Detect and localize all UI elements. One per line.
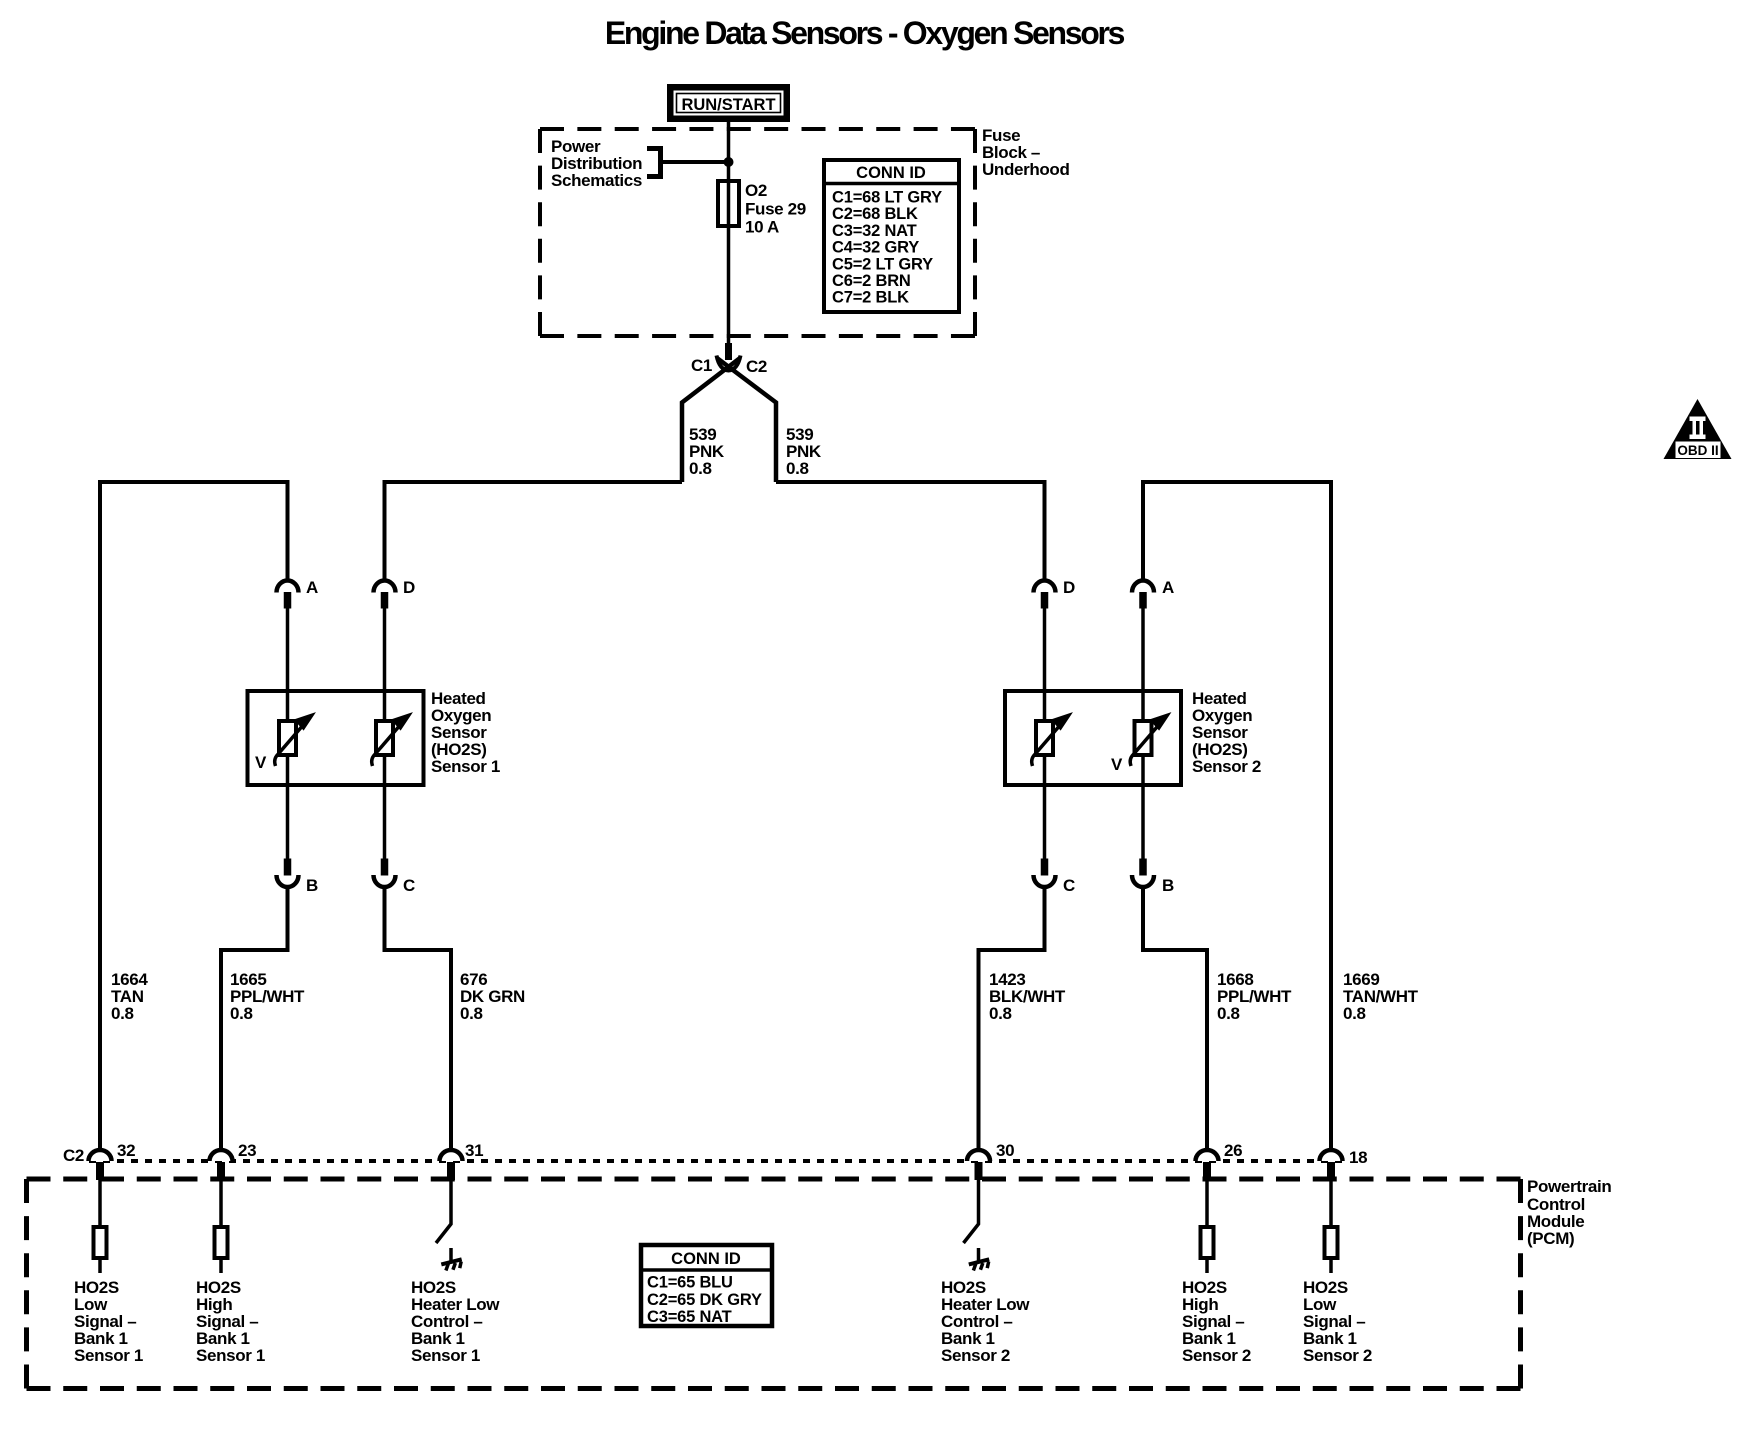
- svg-text:Sensor 2: Sensor 2: [1182, 1346, 1251, 1365]
- svg-text:Sensor 2: Sensor 2: [941, 1346, 1010, 1365]
- svg-text:0.8: 0.8: [230, 1004, 253, 1023]
- svg-text:30: 30: [996, 1141, 1014, 1160]
- svg-text:C3=65 NAT: C3=65 NAT: [647, 1308, 732, 1326]
- svg-text:Sensor 1: Sensor 1: [74, 1346, 143, 1365]
- svg-text:C1=65 BLU: C1=65 BLU: [647, 1274, 733, 1292]
- svg-text:Sensor 2: Sensor 2: [1303, 1346, 1372, 1365]
- svg-text:Sensor 2: Sensor 2: [1192, 757, 1261, 776]
- svg-text:Underhood: Underhood: [982, 160, 1070, 179]
- svg-text:A: A: [306, 578, 318, 597]
- svg-text:0.8: 0.8: [111, 1004, 134, 1023]
- svg-text:OBD II: OBD II: [1677, 443, 1718, 458]
- svg-text:C1: C1: [691, 356, 712, 375]
- svg-text:V: V: [255, 753, 267, 772]
- svg-text:C2: C2: [63, 1146, 84, 1165]
- svg-text:C: C: [403, 876, 415, 895]
- svg-text:Engine Data Sensors - Oxygen S: Engine Data Sensors - Oxygen Sensors: [605, 15, 1125, 51]
- svg-text:C3=32 NAT: C3=32 NAT: [832, 222, 917, 240]
- svg-text:D: D: [403, 578, 415, 597]
- svg-text:V: V: [1111, 755, 1123, 774]
- svg-text:26: 26: [1224, 1141, 1242, 1160]
- svg-text:C: C: [1063, 876, 1075, 895]
- svg-text:0.8: 0.8: [786, 459, 809, 478]
- svg-text:B: B: [1162, 876, 1174, 895]
- svg-text:0.8: 0.8: [689, 459, 712, 478]
- svg-text:D: D: [1063, 578, 1075, 597]
- svg-text:10 A: 10 A: [745, 218, 779, 237]
- svg-text:(PCM): (PCM): [1527, 1229, 1574, 1248]
- svg-text:CONN ID: CONN ID: [856, 164, 926, 182]
- svg-text:Powertrain: Powertrain: [1527, 1177, 1611, 1196]
- svg-text:Sensor 1: Sensor 1: [431, 757, 500, 776]
- svg-text:0.8: 0.8: [460, 1004, 483, 1023]
- svg-text:C2: C2: [746, 357, 767, 376]
- svg-text:32: 32: [117, 1141, 135, 1160]
- svg-text:C7=2 BLK: C7=2 BLK: [832, 289, 909, 307]
- svg-text:A: A: [1162, 578, 1174, 597]
- svg-text:23: 23: [238, 1141, 256, 1160]
- svg-text:Sensor 1: Sensor 1: [196, 1346, 265, 1365]
- svg-text:O2: O2: [745, 181, 767, 200]
- svg-text:0.8: 0.8: [1343, 1004, 1366, 1023]
- svg-text:0.8: 0.8: [1217, 1004, 1240, 1023]
- svg-text:Schematics: Schematics: [551, 171, 642, 190]
- svg-text:C2=68 BLK: C2=68 BLK: [832, 205, 918, 223]
- svg-text:B: B: [306, 876, 318, 895]
- svg-text:C4=32 GRY: C4=32 GRY: [832, 239, 919, 257]
- svg-text:C1=68 LT GRY: C1=68 LT GRY: [832, 189, 942, 207]
- svg-text:0.8: 0.8: [989, 1004, 1012, 1023]
- svg-text:CONN ID: CONN ID: [671, 1250, 741, 1268]
- svg-text:31: 31: [465, 1141, 483, 1160]
- svg-text:Fuse 29: Fuse 29: [745, 200, 806, 219]
- svg-text:C5=2 LT GRY: C5=2 LT GRY: [832, 255, 933, 273]
- svg-text:RUN/START: RUN/START: [681, 96, 775, 114]
- svg-text:Sensor 1: Sensor 1: [411, 1346, 480, 1365]
- svg-text:C6=2 BRN: C6=2 BRN: [832, 272, 911, 290]
- svg-text:18: 18: [1349, 1148, 1367, 1167]
- svg-text:C2=65 DK GRY: C2=65 DK GRY: [647, 1291, 762, 1309]
